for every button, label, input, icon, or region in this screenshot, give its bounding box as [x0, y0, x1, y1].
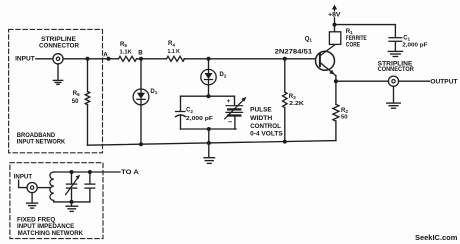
svg-text:R2: R2	[341, 108, 348, 114]
svg-text:R3: R3	[289, 94, 296, 100]
svg-text:2.2K: 2.2K	[289, 101, 305, 107]
transistor Q1	[316, 45, 336, 76]
junction: variable capacitor tap	[70, 170, 74, 174]
variable source lead (bottom)	[234, 117, 236, 129]
svg-text:MATCHING NETWORK: MATCHING NETWORK	[18, 230, 84, 237]
svg-text:2,000 pF: 2,000 pF	[186, 116, 213, 122]
svg-text:D2: D2	[220, 72, 227, 78]
label: R4 1.1 K	[168, 41, 181, 55]
wire: C2 network top	[181, 95, 235, 97]
ground (matching network)	[66, 202, 78, 212]
ground (below J2)	[387, 86, 401, 108]
wire: emitter down to output node	[335, 76, 337, 82]
capacitor C1	[389, 38, 402, 51]
label: R5 1.1K	[120, 42, 133, 56]
wire: R2 upper lead	[335, 81, 337, 104]
svg-text:2N2784/51: 2N2784/51	[275, 49, 313, 56]
junction: +8V node	[333, 23, 337, 27]
wire: J2 to OUTPUT	[399, 80, 430, 82]
svg-text:–: –	[228, 117, 232, 126]
svg-text:D1: D1	[150, 89, 157, 95]
svg-text:CONTROL: CONTROL	[250, 123, 281, 130]
svg-text:1.1 K: 1.1 K	[168, 49, 181, 55]
junction: R6 tap	[86, 57, 90, 61]
resistor R3	[283, 92, 287, 108]
ground (below C1)	[388, 51, 402, 56]
wire: +8V to R1	[334, 18, 336, 32]
wire: input drop to connector J3	[19, 180, 27, 187]
label: R1 FERRITE CORE	[346, 29, 367, 49]
label: STRIPLINE CONNECTOR (input)	[39, 36, 79, 49]
svg-text:CONNECTOR: CONNECTOR	[39, 42, 79, 49]
svg-text:B: B	[138, 49, 143, 56]
junction: stub on rail	[207, 141, 211, 145]
svg-text:INPUT: INPUT	[14, 174, 33, 181]
label: FIXED FREQ INPUT IMPEDANCE MATCHING NETWORK	[17, 216, 83, 237]
dashed box: broadband input network	[9, 29, 103, 152]
wire: R6 lower lead to ground rail	[87, 105, 89, 146]
capacitor C5 (fixed)	[85, 172, 95, 202]
label: STRIPLINE CONNECTOR (output)	[378, 60, 415, 73]
variable source arrow	[225, 97, 247, 119]
wire: R4 to Q1 base	[184, 58, 320, 60]
svg-text:Q1: Q1	[305, 36, 313, 42]
wire: C2 left branch lower	[180, 116, 182, 129]
svg-text:1.1K: 1.1K	[120, 49, 133, 55]
svg-text:CONNECTOR: CONNECTOR	[378, 66, 415, 73]
svg-text:A: A	[103, 51, 108, 58]
label: PULSE WIDTH CONTROL 0-4 VOLTS	[250, 107, 283, 138]
svg-text:R5: R5	[120, 42, 127, 48]
variable source lead (top)	[234, 96, 236, 105]
wire: J1 to node A row	[63, 58, 118, 60]
svg-text:R4: R4	[168, 41, 175, 47]
junction: D2 tap	[207, 57, 211, 61]
capacitor C2	[176, 112, 186, 117]
svg-text:50: 50	[72, 99, 79, 105]
svg-text:C2: C2	[186, 108, 193, 114]
wire: stub to ground rail	[208, 129, 210, 143]
svg-text:0-4 VOLTS: 0-4 VOLTS	[250, 131, 283, 138]
svg-text:50: 50	[341, 114, 348, 120]
svg-text:2,000 pF: 2,000 pF	[402, 43, 428, 49]
ground (below J3)	[27, 193, 38, 208]
junction: R3 tap	[283, 57, 287, 61]
wire: J3 to coil tap	[37, 187, 50, 189]
wire: +8V node to C1	[335, 24, 396, 26]
svg-text:INPUT NETWORK: INPUT NETWORK	[17, 139, 66, 146]
junction: D1 on rail	[139, 142, 143, 146]
svg-text:OUTPUT: OUTPUT	[430, 79, 457, 86]
resistor R4	[167, 56, 185, 61]
inductor R1 ferrite core (choke)	[329, 32, 340, 45]
junction: R3 on rail	[283, 140, 287, 144]
junction: emitter/output node	[334, 79, 338, 83]
wire: C2 network bottom	[181, 128, 237, 130]
wire: C1 top lead	[394, 25, 396, 38]
node A	[107, 57, 111, 61]
diode D1 (tunnel diode)	[133, 59, 149, 105]
wire: input lead to connector J1	[36, 58, 53, 60]
label: BROADBAND INPUT NETWORK	[17, 132, 66, 146]
svg-text:INPUT IMPEDANCE: INPUT IMPEDANCE	[17, 223, 75, 230]
wire: R5 to R4	[137, 58, 167, 60]
diode D2 (tunnel diode)	[201, 59, 216, 85]
wire: R6 upper lead	[87, 59, 89, 92]
stripline connector J3 (matching input)	[27, 183, 37, 193]
label: R6 50	[72, 91, 80, 105]
wire: D1 to ground rail	[140, 99, 142, 144]
wire: ground rail	[88, 141, 336, 146]
svg-text:INPUT: INPUT	[15, 56, 35, 63]
junction: D2 on C2 top wire	[207, 94, 211, 98]
svg-text:CORE: CORE	[346, 41, 360, 48]
label: R2 50	[341, 108, 348, 120]
node B	[139, 57, 143, 61]
label: R3 2.2K	[289, 94, 305, 107]
wire: R3 upper lead	[284, 59, 286, 92]
svg-text:SeekIC.com: SeekIC.com	[415, 233, 458, 242]
resistor R6	[85, 92, 89, 105]
resistor R5	[119, 56, 137, 61]
inductor L1 (tapped matching coil)	[50, 172, 54, 202]
variable capacitor C4	[66, 172, 81, 202]
svg-text:R6: R6	[73, 91, 80, 97]
wire: D2 lower lead	[208, 80, 210, 97]
stripline connector J2 (output)	[388, 76, 398, 86]
svg-text:C1: C1	[403, 35, 410, 41]
wire: R3 lower lead to rail	[284, 108, 286, 142]
svg-text:WIDTH: WIDTH	[250, 115, 273, 122]
wire: matching network bottom	[54, 201, 90, 203]
variable bias battery (pulse width control)	[226, 106, 243, 116]
resistor R2	[333, 104, 339, 121]
junction: bottom wire to ground stub	[207, 127, 211, 131]
junction: bottom to ground	[70, 200, 74, 204]
dashed box: fixed freq input impedance matching network	[10, 163, 103, 239]
wire: matching network top	[54, 171, 120, 173]
wire: R2 lower lead	[335, 121, 337, 141]
ground (below J1)	[53, 64, 62, 85]
label: C1 2,000 pF	[402, 35, 428, 48]
svg-text:PULSE: PULSE	[250, 107, 272, 114]
wire: output node to connector J2	[336, 80, 389, 82]
power +8V arrow	[332, 5, 337, 11]
label: C2 2,000 pF	[186, 108, 213, 122]
stripline connector J1 (input)	[53, 54, 63, 64]
junction: fixed capacitor tap	[88, 170, 92, 174]
svg-text:TO A: TO A	[121, 169, 139, 176]
ground (rail, below C2 network)	[204, 143, 215, 163]
wire: C2 left branch upper	[180, 96, 182, 111]
svg-text:+: +	[227, 98, 231, 105]
